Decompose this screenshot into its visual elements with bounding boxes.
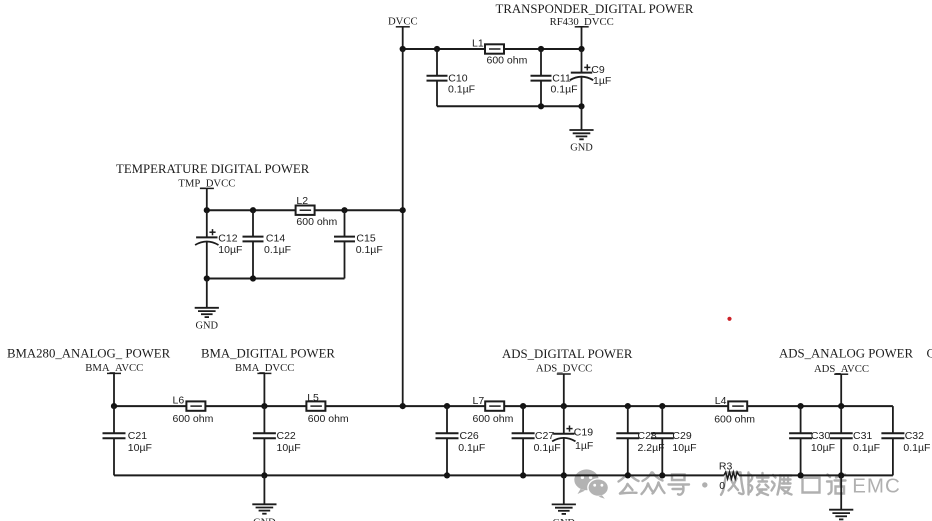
svg-text:TRANSPONDER_DIGITAL POWER: TRANSPONDER_DIGITAL POWER — [496, 2, 694, 16]
capacitor C11 — [531, 49, 578, 106]
inductor L5 — [306, 392, 349, 425]
junction C30 top — [798, 403, 804, 409]
junction DVCC trunk bus — [400, 403, 406, 409]
junction C12 bottom — [204, 275, 210, 281]
ground GND ADS analog — [829, 475, 853, 519]
junction TMP/temp bus — [204, 207, 210, 213]
capacitor C15 — [334, 210, 383, 278]
svg-text:BMA_DVCC: BMA_DVCC — [235, 362, 294, 374]
svg-text:L6: L6 — [173, 394, 185, 406]
svg-text:EMC: EMC — [852, 475, 901, 498]
svg-text:10µF: 10µF — [277, 442, 301, 454]
inductor L2 — [296, 195, 338, 228]
wire main bus seg1 — [114, 405, 186, 407]
junction C11 bottom — [538, 103, 544, 109]
svg-text:C19: C19 — [574, 426, 593, 438]
wire bottom bus left of R3 — [114, 474, 724, 476]
capacitor C19 polarized — [552, 406, 593, 475]
capacitor C27 — [512, 406, 561, 475]
svg-text:GND: GND — [570, 143, 593, 154]
svg-text:0.1µF: 0.1µF — [853, 442, 880, 454]
watermark char ling — [749, 473, 769, 496]
watermark wechat icon — [574, 469, 609, 498]
svg-text:C30: C30 — [811, 430, 830, 442]
svg-text:10µF: 10µF — [128, 442, 152, 454]
svg-text:C31: C31 — [853, 430, 872, 442]
svg-text:L7: L7 — [473, 395, 485, 407]
svg-text:C27: C27 — [535, 430, 554, 442]
watermark char feng — [721, 473, 744, 495]
junction C28 bottom — [625, 472, 631, 478]
svg-text:ADS_ANALOG POWER: ADS_ANALOG POWER — [779, 347, 913, 361]
capacitor C32 — [881, 406, 930, 475]
junction C9 top — [578, 46, 584, 52]
junction C10 top — [434, 46, 440, 52]
svg-text:2.2µF: 2.2µF — [638, 442, 665, 454]
inductor L1 — [472, 37, 528, 66]
junction C29 bottom — [659, 472, 665, 478]
inductor L6 — [173, 394, 214, 425]
junction C14 top — [250, 207, 256, 213]
node BMA_AVCC — [85, 362, 143, 374]
junction BMA_DVCC bus — [261, 403, 267, 409]
svg-text:0.1µF: 0.1µF — [264, 244, 291, 256]
junction temp bus/DVCC trunk — [400, 207, 406, 213]
svg-text:C32: C32 — [905, 430, 924, 442]
junction C22 bottom — [261, 472, 267, 478]
capacitor C30 — [789, 406, 835, 475]
ground GND temp-section — [195, 279, 219, 332]
wire top bus left — [403, 48, 485, 50]
wire DVCC trunk — [402, 49, 404, 406]
svg-text:1µF: 1µF — [593, 75, 611, 87]
svg-text:1µF: 1µF — [575, 440, 593, 452]
wire BMA_DVCC stub — [263, 373, 265, 406]
svg-text:0.1µF: 0.1µF — [356, 244, 383, 256]
junction C28 top — [625, 403, 631, 409]
svg-text:600 ohm: 600 ohm — [473, 413, 514, 425]
junction DVCC/top bus — [400, 46, 406, 52]
wire main bus seg5 — [747, 405, 893, 407]
wire DVCC stub — [402, 27, 404, 49]
svg-text:10µF: 10µF — [672, 442, 696, 454]
svg-text:ADS_DIGITAL POWER: ADS_DIGITAL POWER — [502, 347, 633, 361]
capacitor C21 — [103, 406, 152, 475]
svg-text:600 ohm: 600 ohm — [714, 413, 755, 425]
node RF430_DVCC — [550, 16, 614, 28]
junction ADS_DVCC bottom — [561, 472, 567, 478]
watermark char gong — [619, 474, 639, 494]
svg-text:C12: C12 — [218, 232, 237, 244]
wire main bus seg2 — [205, 405, 306, 407]
wire ADS_DVCC stub — [563, 374, 565, 406]
watermark char zhong — [642, 473, 665, 495]
svg-text:C28: C28 — [638, 430, 657, 442]
svg-text:DVCC: DVCC — [388, 16, 418, 28]
svg-text:C22: C22 — [277, 430, 296, 442]
wire ADS_AVCC stub — [840, 374, 842, 406]
svg-text:600 ohm: 600 ohm — [487, 55, 528, 67]
svg-text:ADS_AVCC: ADS_AVCC — [814, 363, 869, 375]
inductor L7 — [473, 395, 514, 425]
svg-text:0: 0 — [719, 480, 725, 492]
capacitor C10 — [427, 49, 476, 106]
junction C15 top — [341, 207, 347, 213]
svg-text:TEMPERATURE DIGITAL POWER: TEMPERATURE DIGITAL POWER — [116, 162, 310, 176]
watermark char kou — [803, 478, 820, 493]
node ADS_AVCC — [814, 363, 869, 375]
wire bottom bus temp-section — [207, 278, 345, 280]
svg-text:600 ohm: 600 ohm — [308, 413, 349, 425]
junction C29 top — [659, 403, 665, 409]
junction C26 top — [444, 403, 450, 409]
junction C27 bottom — [520, 472, 526, 478]
svg-text:C: C — [927, 347, 932, 361]
svg-text:C29: C29 — [672, 430, 691, 442]
junction C30 bottom — [798, 472, 804, 478]
svg-text:L4: L4 — [715, 395, 727, 407]
node TMP_DVCC — [178, 178, 235, 190]
node DVCC — [388, 16, 418, 28]
svg-text:BMA_AVCC: BMA_AVCC — [85, 362, 143, 374]
svg-text:L1: L1 — [472, 37, 484, 49]
svg-text:10µF: 10µF — [218, 244, 242, 256]
junction C11 top — [538, 46, 544, 52]
svg-text:ADS_DVCC: ADS_DVCC — [536, 363, 592, 375]
svg-text:600 ohm: 600 ohm — [296, 216, 337, 228]
wire bottom bus top-section — [437, 105, 582, 107]
svg-text:0.1µF: 0.1µF — [903, 442, 930, 454]
capacitor C9 polarized — [570, 49, 612, 106]
wire bottom bus right of R3 — [739, 474, 893, 476]
wire RF430 stub — [581, 27, 583, 49]
capacitor C14 — [243, 210, 292, 278]
ground GND ADS digital — [552, 475, 576, 521]
junction BMA_AVCC bus — [111, 403, 117, 409]
junction ADS_AVCC bottom — [838, 472, 844, 478]
watermark char du — [772, 475, 792, 495]
node BMA_DVCC — [235, 362, 294, 374]
svg-text:GND: GND — [253, 518, 276, 521]
wire main bus seg4 — [504, 405, 728, 407]
capacitor C22 — [253, 406, 301, 475]
wire TMP stub — [206, 188, 208, 210]
junction ADS_DVCC bus — [561, 403, 567, 409]
svg-text:0.1µF: 0.1µF — [551, 83, 578, 95]
svg-text:10µF: 10µF — [811, 442, 835, 454]
svg-text:C15: C15 — [356, 232, 375, 244]
svg-text:0.1µF: 0.1µF — [458, 442, 485, 454]
inductor L4 — [714, 395, 755, 425]
watermark middle dot — [702, 482, 707, 487]
junction ADS_AVCC bus — [838, 403, 844, 409]
svg-text:BMA280_ANALOG_ POWER: BMA280_ANALOG_ POWER — [7, 346, 171, 360]
wire temp bus left — [207, 209, 296, 211]
watermark char hao — [669, 475, 690, 495]
junction C27 top — [520, 403, 526, 409]
capacitor C29 — [651, 406, 697, 475]
capacitor C28 — [616, 406, 664, 475]
wire temp bus right — [315, 209, 403, 211]
svg-text:600 ohm: 600 ohm — [173, 413, 214, 425]
node ADS_DVCC — [536, 363, 592, 375]
wire top bus right — [504, 48, 582, 50]
red mark — [727, 317, 731, 321]
junction C9 bottom — [578, 103, 584, 109]
wire BMA_AVCC stub — [113, 373, 115, 406]
svg-text:C14: C14 — [266, 232, 285, 244]
capacitor C31 — [830, 406, 880, 475]
ground GND BMA — [252, 475, 276, 521]
resistor R3 — [719, 460, 739, 492]
junction C26 bottom — [444, 472, 450, 478]
wire main bus seg3 — [325, 405, 485, 407]
capacitor C12 polarized — [195, 210, 242, 278]
svg-text:GND: GND — [196, 320, 219, 331]
svg-text:C21: C21 — [128, 430, 147, 442]
capacitor C26 — [436, 406, 486, 475]
watermark char hua — [827, 475, 846, 495]
ground GND top-section — [569, 106, 593, 153]
svg-text:BMA_DIGITAL POWER: BMA_DIGITAL POWER — [201, 346, 335, 360]
svg-text:0.1µF: 0.1µF — [534, 442, 561, 454]
junction C14 bottom — [250, 275, 256, 281]
svg-text:C26: C26 — [460, 430, 479, 442]
svg-text:0.1µF: 0.1µF — [448, 83, 475, 95]
